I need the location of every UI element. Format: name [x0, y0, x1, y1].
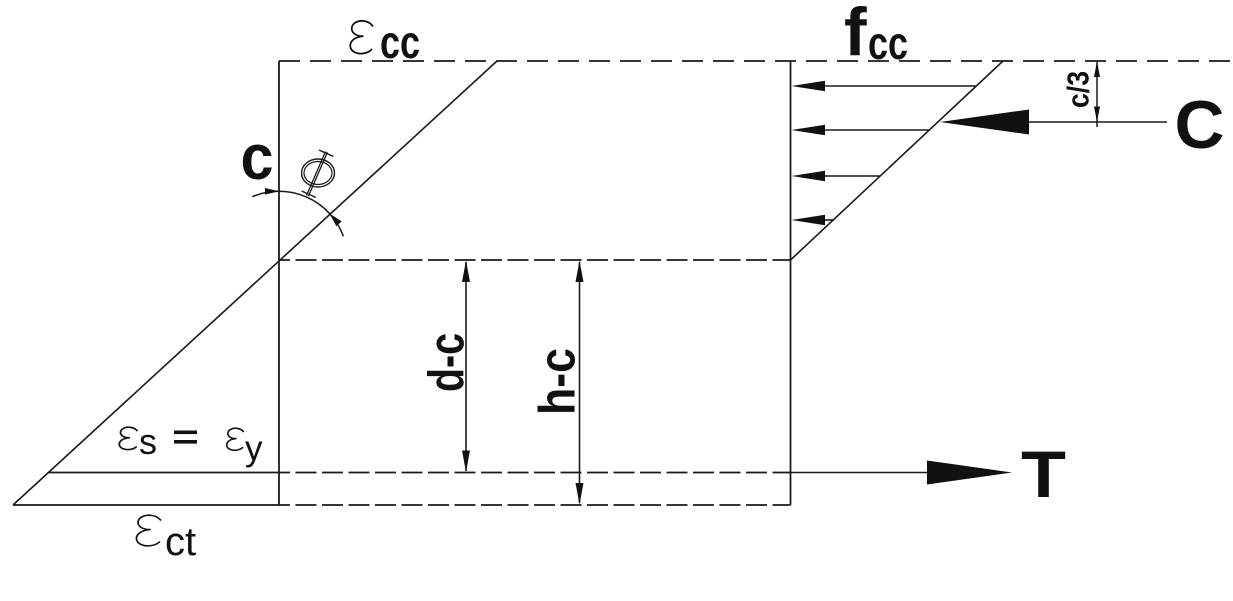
dimension c/3: [1094, 62, 1100, 128]
stress arrow 3: [792, 171, 881, 181]
phi slash top tick: [319, 150, 334, 157]
svg-text:s: s: [139, 421, 157, 462]
svg-text:cc: cc: [868, 17, 908, 69]
beam section right edge (stress axis): [790, 61, 792, 505]
steel level dashed line: [279, 472, 791, 474]
top fiber dashed line: [279, 60, 1233, 62]
label eps_cc: [350, 16, 420, 68]
label eps_s = eps_y: [119, 421, 263, 468]
phi slash: [307, 152, 326, 196]
strain diagram diagonal: [13, 61, 497, 505]
neutral axis dashed line: [279, 259, 791, 261]
label f_cc: [844, 0, 908, 70]
svg-text:T: T: [1021, 437, 1066, 511]
svg-text:d-c: d-c: [419, 333, 475, 392]
svg-text:c: c: [241, 121, 274, 193]
svg-text:y: y: [245, 429, 263, 468]
steel level line (solid in strain wedge): [48, 472, 279, 474]
dimension d-c: [462, 261, 470, 473]
stress arrow 4: [792, 215, 834, 225]
bottom fiber dashed line: [279, 504, 791, 506]
dimension h-c: [576, 261, 584, 505]
resultant C arrow: [940, 110, 1167, 135]
resultant T arrow: [791, 461, 1013, 485]
svg-text:h-c: h-c: [529, 348, 586, 415]
curvature angle arc: [252, 191, 343, 236]
bottom fiber solid line: [13, 504, 279, 506]
stress arrow 1: [792, 81, 977, 91]
phi symbol ellipses: [302, 159, 335, 187]
svg-text:f: f: [844, 0, 867, 70]
label eps_ct: [136, 515, 196, 564]
svg-text:cc: cc: [380, 16, 420, 68]
arc arrowhead at diagonal: [330, 214, 342, 227]
arc arrowhead at vertical line: [265, 188, 279, 195]
stress diagram diagonal: [791, 61, 1004, 260]
svg-text:C: C: [1175, 87, 1225, 163]
phi slash bottom tick: [302, 191, 317, 198]
svg-text:ct: ct: [165, 520, 196, 564]
stress arrow 2: [792, 125, 930, 135]
beam section left edge (strain axis): [278, 61, 280, 505]
svg-text:c/3: c/3: [1061, 71, 1096, 108]
